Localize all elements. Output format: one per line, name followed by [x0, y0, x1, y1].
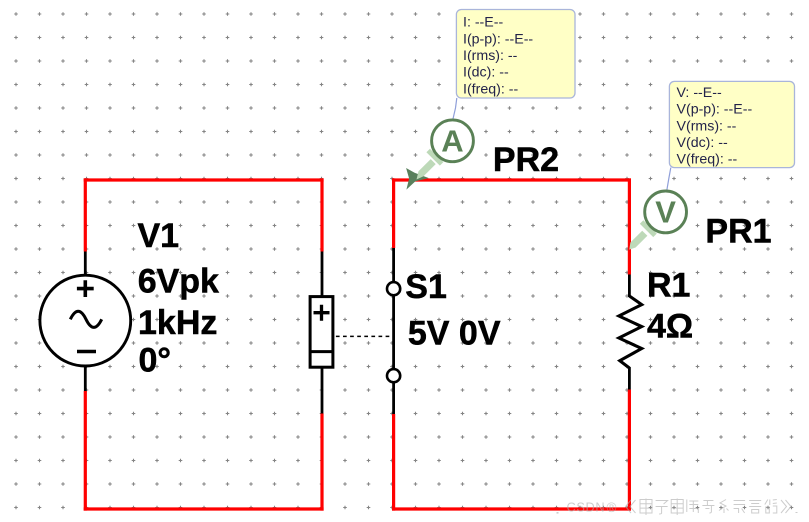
- label 4ohm: [647, 307, 693, 345]
- wire: left loop left vertical red lower: [84, 391, 87, 511]
- label 1kHz: [138, 304, 217, 342]
- wire: control branch red lower: [320, 414, 323, 511]
- watermark CSDN: [557, 512, 559, 514]
- probe PR1 (V) letter: [655, 195, 676, 230]
- wire: switch branch black stub to S1 top contact: [392, 248, 395, 282]
- label R1: [647, 266, 690, 304]
- probe PR2 (A) shaft: [417, 159, 436, 179]
- wire: right loop top (red): [392, 178, 631, 181]
- svg-text:I(freq): --: I(freq): --: [463, 81, 518, 97]
- switch S1 bottom contact: [387, 369, 400, 382]
- label V1: [138, 217, 180, 255]
- wire: left loop left vertical red upper: [84, 178, 87, 251]
- label PR1: [705, 213, 771, 251]
- label PR2: [493, 141, 559, 179]
- svg-text:I(dc): --: I(dc): --: [463, 65, 509, 81]
- svg-text:PR2: PR2: [493, 141, 559, 179]
- svg-text:I(p-p): --E--: I(p-p): --E--: [463, 31, 533, 47]
- switch S1 top contact: [387, 282, 400, 295]
- probe PR2 (A) letter: [441, 124, 463, 159]
- svg-text:A: A: [441, 124, 463, 159]
- svg-text:PR1: PR1: [705, 213, 771, 251]
- V1 sine wave: [70, 311, 101, 327]
- S1 control box inner line: [310, 350, 333, 353]
- wire: black stub below V1: [84, 366, 87, 391]
- probe PR1 (V) hilt: [640, 220, 657, 237]
- switch S1 blade (closed): [392, 295, 395, 369]
- svg-text:V(rms): --: V(rms): --: [677, 118, 737, 134]
- svg-text:I: --E--: I: --E--: [463, 15, 503, 31]
- probe PR2 (A) circle: [432, 120, 474, 162]
- svg-text:V(dc): --: V(dc): --: [677, 135, 729, 151]
- S1 control box: [310, 297, 333, 368]
- probe PR2 (A) hilt: [426, 149, 443, 166]
- wire: resistor branch black stub to R1: [628, 275, 631, 298]
- svg-text:S1: S1: [405, 268, 447, 306]
- label 6Vpk: [138, 263, 219, 301]
- tooltip voltage probe text: [677, 85, 753, 168]
- svg-text:R1: R1: [647, 266, 690, 304]
- wire: left loop top (red): [84, 178, 324, 181]
- svg-text:V: --E--: V: --E--: [677, 85, 722, 101]
- S1 control box plus: [314, 305, 330, 321]
- svg-text:6Vpk: 6Vpk: [138, 263, 219, 301]
- probe PR1 (V) circle: [645, 191, 687, 233]
- svg-text:I(rms): --: I(rms): --: [463, 48, 518, 64]
- wire: left loop left vertical black stub to V1 top: [84, 252, 87, 277]
- svg-text:V(freq): --: V(freq): --: [677, 152, 738, 168]
- svg-text:®: ®: [607, 500, 617, 515]
- probe PR1 (V) shaft: [629, 231, 647, 250]
- svg-text:5V 0V: 5V 0V: [408, 314, 501, 352]
- svg-text:V1: V1: [138, 217, 180, 255]
- tooltip voltage probe box: [669, 81, 794, 167]
- svg-text:1kHz: 1kHz: [138, 304, 217, 342]
- label S1: [405, 268, 447, 306]
- svg-text:0°: 0°: [139, 342, 172, 380]
- wire: control branch black stub below box: [321, 366, 324, 414]
- probe PR2 leader line: [453, 98, 457, 120]
- wire: control branch red upper: [320, 178, 323, 251]
- svg-text:4Ω: 4Ω: [647, 307, 693, 345]
- wire: switch branch red lower: [392, 414, 395, 511]
- svg-text:V(p-p): --E--: V(p-p): --E--: [677, 102, 753, 118]
- wire: resistor branch red lower: [628, 390, 631, 511]
- label 5V 0V: [408, 314, 501, 352]
- probe PR2 (A) arrowhead: [406, 168, 429, 190]
- wire: left loop bottom (red): [84, 507, 324, 510]
- wire: resistor branch black stub below R1: [628, 367, 631, 390]
- AC source V1 circle: [40, 275, 131, 366]
- wire: switch branch red upper: [392, 178, 395, 248]
- svg-text:V: V: [655, 195, 676, 230]
- wire: right loop bottom (red): [392, 507, 631, 510]
- resistor R1 zigzag: [619, 296, 642, 368]
- probe PR1 leader line: [667, 168, 671, 191]
- svg-text:CSDN: CSDN: [567, 500, 606, 515]
- wire: switch branch black stub below S1: [392, 383, 395, 415]
- wire: control branch black stub to box top: [321, 252, 324, 299]
- V1 minus sign: [77, 350, 96, 354]
- S1 control dashed link: [336, 335, 392, 337]
- wire: resistor branch red upper: [628, 178, 631, 274]
- label 0deg: [139, 342, 172, 380]
- watermark CJK mock glyphs: [626, 499, 798, 516]
- tooltip current probe text: [463, 15, 533, 98]
- tooltip current probe box: [456, 10, 575, 99]
- V1 plus sign: [77, 280, 94, 297]
